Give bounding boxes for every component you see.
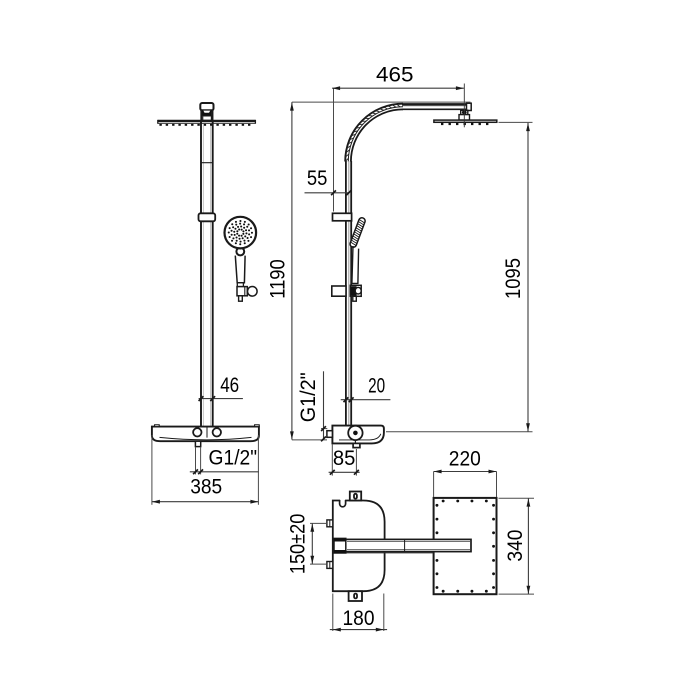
dimension 55 (pipe offset) (305, 166, 352, 195)
dimension 465 (arm reach) (332, 63, 464, 212)
front view: hand shower holder bracket (237, 283, 257, 301)
svg-text:1095: 1095 (501, 258, 525, 299)
dimension 46 (column width, front view) (199, 373, 243, 401)
front view: hand shower handle (235, 256, 245, 283)
side view: curved riser tube (mid arc) (348, 107, 403, 162)
dimension 385 (shelf width) (152, 435, 259, 505)
svg-text:220: 220 (449, 446, 481, 470)
dimension G1/2&quot; (side wall outlet) (296, 371, 328, 441)
svg-text:385: 385 (190, 474, 222, 498)
side view: bottom outlet fitting (353, 443, 360, 447)
side view: bend hatching ticks (345, 104, 400, 161)
dimension 1095 (head height above valve) (386, 122, 533, 431)
side view: hand shower paddle head (edge-on, hatched) (349, 217, 366, 248)
dimension 20 (pipe diameter) (341, 374, 391, 403)
dimension 180 (body width) (330, 594, 387, 632)
svg-text:G1/2": G1/2" (296, 372, 320, 422)
dimension 1190 (total height) (265, 102, 470, 440)
front view: ceiling mount knob on top of column (200, 103, 213, 121)
front view: column coupling ring (199, 213, 216, 221)
top view: rain head nozzle dots (437, 501, 494, 591)
side view: curved riser tube (inner arc) (351, 109, 403, 161)
svg-text:46: 46 (220, 373, 239, 397)
side view: wall outlet G1/2 (left of valve) (327, 431, 333, 438)
side view: rain head plate (edge-on) (434, 120, 497, 125)
top view: shower arm bar (334, 538, 471, 553)
side view: hand shower handle (edge-on) (352, 246, 359, 283)
side view: vertical pipe (346, 161, 351, 426)
front view: hand shower neck (236, 248, 244, 256)
side view: hand shower holder block on pipe (332, 286, 346, 296)
dimension G1/2&quot; (front view outlet) (190, 445, 259, 474)
svg-text:465: 465 (376, 63, 414, 87)
front view: left shelf knob (193, 428, 201, 436)
dimension 340 (head length) (499, 498, 535, 594)
side view: curved riser tube (outer arc) (345, 104, 403, 162)
side view: horizontal arm of riser (402, 104, 471, 109)
top view: bottom mounting tab with slot (349, 591, 362, 601)
dimension 220 (head width) (434, 446, 497, 497)
top view: top mounting tab with slot (350, 492, 361, 501)
front view: overhead rain shower plate (158, 120, 256, 126)
svg-text:150±20: 150±20 (286, 514, 310, 575)
svg-text:G1/2": G1/2" (209, 445, 258, 469)
svg-text:180: 180 (343, 606, 375, 630)
svg-text:1190: 1190 (265, 259, 289, 299)
top view: valve/shelf body (333, 500, 385, 591)
side view: thermostatic valve body (332, 426, 384, 444)
side view: rain head mount block (459, 110, 470, 120)
svg-text:20: 20 (368, 374, 385, 398)
front view: G1/2 outlet nipple under shelf (195, 441, 200, 446)
front view: shelf / mixer body (152, 425, 259, 441)
svg-text:85: 85 (333, 446, 356, 470)
top view: rain head panel (434, 498, 497, 594)
side view: slider bracket on pipe (333, 213, 352, 221)
front view: shower column pipe (201, 121, 213, 427)
front view: right shelf knob (213, 428, 221, 436)
svg-text:340: 340 (503, 530, 527, 562)
side view: arm end cap (467, 103, 472, 110)
top view: upper wall lug (327, 520, 333, 527)
svg-text:55: 55 (307, 166, 328, 190)
side view: valve knob (348, 426, 362, 444)
top view: lower wall lug (327, 562, 333, 569)
side view: head centerline (463, 84, 465, 128)
front view: hand shower head face with nozzles (225, 217, 257, 249)
dimension 150±20 (lug spacing) (286, 514, 328, 575)
side view: hand shower bottom holder (350, 285, 361, 301)
dimension 85 (outlet offset) (329, 444, 360, 475)
